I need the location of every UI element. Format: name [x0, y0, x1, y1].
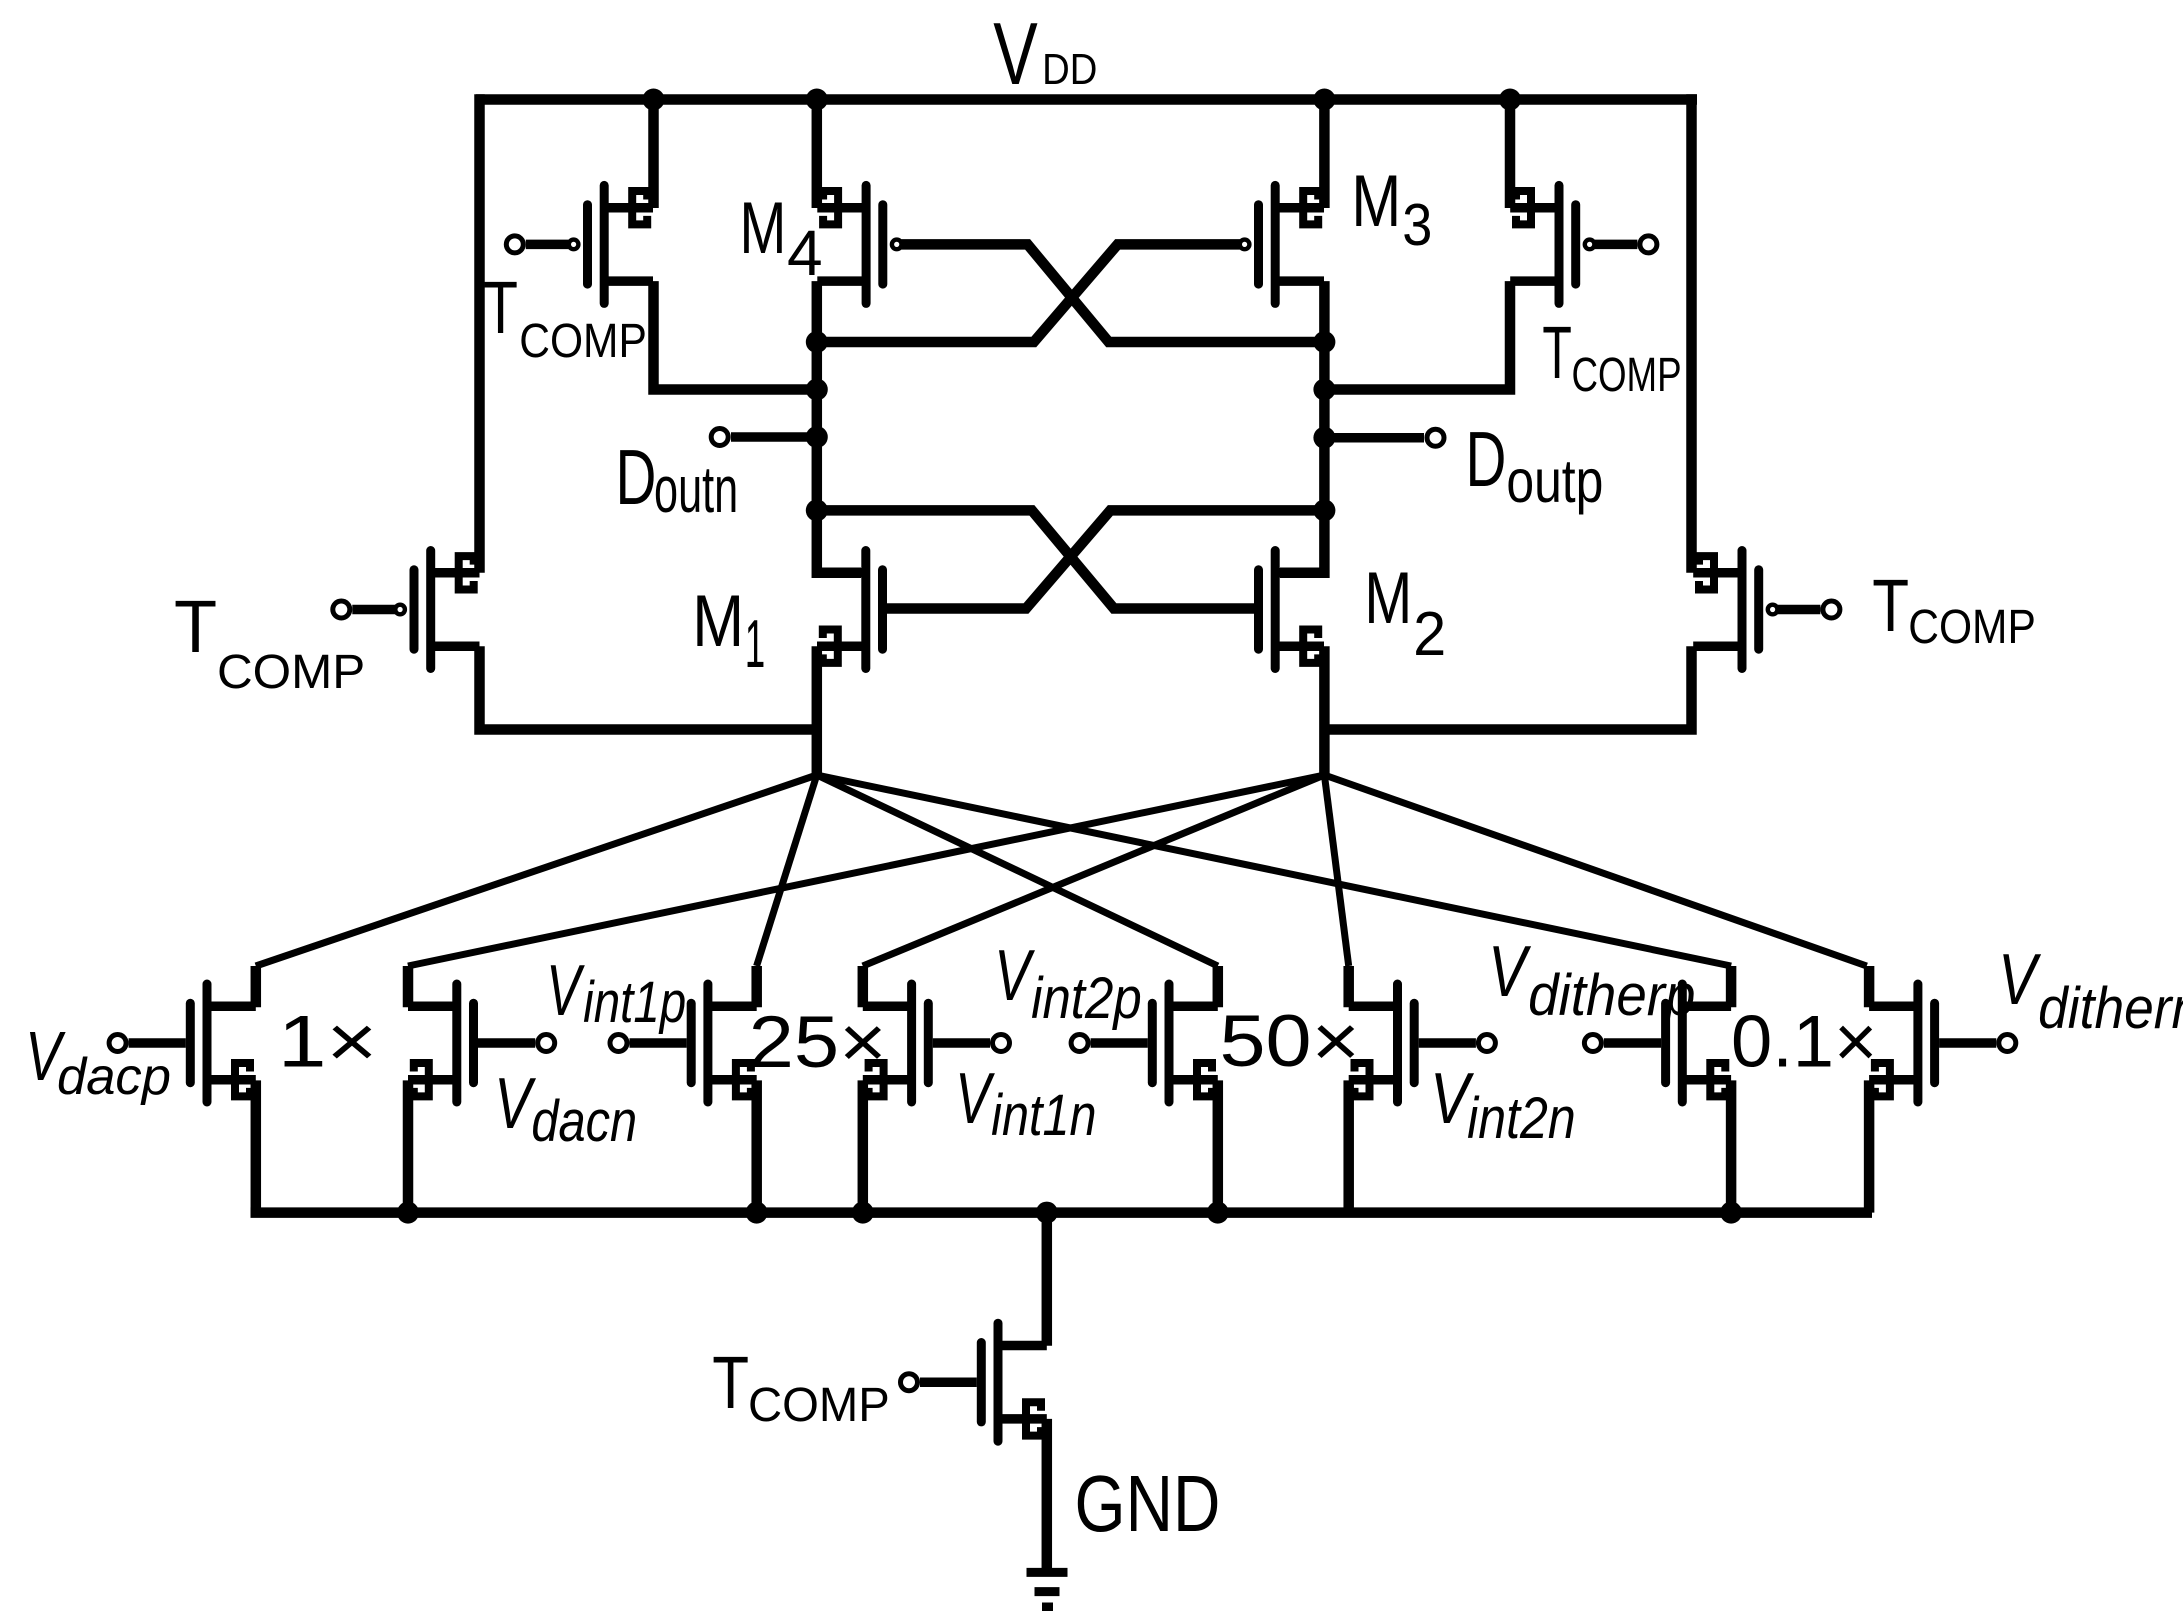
wire source drop for input pair transistor Vdacp (1x left): [251, 1080, 262, 1212]
wire Doutn to M2 gate (lower cross A): [817, 510, 1254, 608]
svg-text:25×: 25×: [749, 1002, 887, 1083]
node Vint1n label: [955, 1059, 1096, 1148]
svg-text:V: V: [994, 935, 1035, 1016]
transistor input pair transistor Vdacp (1x left): [109, 984, 256, 1102]
node Vdithern label: [1998, 939, 2183, 1041]
wire drain riser for input pair transistor Vdithern (0.1x right): [1864, 966, 1875, 1007]
wire source drop for input pair transistor Vint1n (25x right): [858, 1080, 869, 1212]
wire drain riser for input pair transistor Vint1n (25x right): [858, 966, 869, 1007]
transistor input pair transistor Vint2n (50x right): [1349, 984, 1496, 1102]
transistor T2 reset PMOS (mid-left, TCOMP): [333, 551, 480, 669]
svg-text:ditherp: ditherp: [1528, 963, 1695, 1028]
svg-text:COMP: COMP: [1908, 600, 2036, 654]
transistor T3 reset PMOS (mid-right, TCOMP): [1693, 551, 1840, 669]
node Doutp terminal: [1324, 429, 1444, 446]
svg-text:int2n: int2n: [1467, 1087, 1576, 1151]
wire T1 drain down to node Doutn: [654, 281, 817, 389]
transistor input pair transistor Vdithern (0.1x right): [1869, 984, 2016, 1102]
label TCOMP (top-right): [1542, 312, 1681, 403]
wire drain riser for input pair transistor Vint1p (25x left): [751, 966, 762, 1007]
wire M4 gate to M3 drain (upper cross A): [901, 244, 1324, 342]
junction dot bus/Vdacn source: [397, 1202, 419, 1224]
ground symbol: [1027, 1572, 1068, 1607]
transistor T4 reset PMOS (top-right, TCOMP): [1510, 185, 1657, 303]
junction dot T4 drain / Doutp: [1313, 379, 1335, 401]
node Vdacn label: [494, 1063, 637, 1154]
transistor T1 reset PMOS (top-left, TCOMP): [506, 185, 653, 303]
node Vditherp label: [1488, 931, 1695, 1027]
svg-text:3: 3: [1402, 192, 1432, 258]
transistor input pair transistor Vint1n (25x right): [863, 984, 1010, 1102]
label M3: [1351, 161, 1432, 257]
svg-text:0.1×: 0.1×: [1731, 1000, 1877, 1082]
svg-text:COMP: COMP: [1571, 348, 1681, 402]
svg-text:M: M: [1351, 161, 1401, 242]
transistor input pair transistor Vditherp (0.1x left): [1584, 984, 1731, 1102]
svg-text:T: T: [483, 266, 518, 349]
wire source drop for input pair transistor Vditherp (0.1x left): [1726, 1080, 1737, 1212]
junction dot rail/M4 source: [806, 89, 828, 111]
svg-text:M: M: [1364, 557, 1412, 638]
wire T2 source to tail node: [480, 646, 817, 729]
svg-text:outn: outn: [654, 453, 738, 526]
svg-text:M: M: [692, 581, 744, 662]
svg-text:GND: GND: [1075, 1459, 1221, 1549]
svg-text:V: V: [955, 1059, 995, 1139]
label TCOMP (mid-left): [174, 586, 365, 698]
svg-text:T: T: [712, 1342, 749, 1424]
junction dot bus/Vint1n source: [852, 1202, 874, 1224]
node Doutn terminal: [711, 429, 817, 446]
wire drain riser for input pair transistor Vint2p (50x left): [1213, 966, 1224, 1007]
transistor input pair transistor Vint2p (50x left): [1071, 984, 1218, 1102]
junction dot T1 drain / Doutn: [806, 379, 828, 401]
svg-text:COMP: COMP: [217, 646, 365, 699]
label 0.1x ratio: [1731, 1000, 1877, 1082]
junction dot bus/Vint1p source: [746, 1202, 768, 1224]
svg-text:M: M: [739, 187, 786, 269]
svg-text:outp: outp: [1506, 447, 1603, 515]
junction dot bus/Vditherp source: [1720, 1202, 1742, 1224]
node Vint1p label: [546, 951, 686, 1035]
node Vint2p label: [994, 935, 1141, 1031]
wire Doutp to M1 gate (lower cross B): [886, 510, 1324, 608]
label 25x ratio: [749, 1002, 887, 1083]
transistor M2 latch NMOS: [1259, 551, 1325, 669]
label TCOMP (tail): [712, 1342, 890, 1432]
label M2: [1364, 557, 1446, 668]
junction dot bus/tail drain: [1036, 1202, 1058, 1224]
wire T4 drain down to node Doutp: [1324, 281, 1510, 389]
label 1x ratio: [278, 1001, 378, 1083]
svg-text:T: T: [174, 586, 217, 668]
svg-text:dacp: dacp: [57, 1048, 171, 1106]
svg-text:dacn: dacn: [531, 1089, 637, 1154]
wire tail drain riser: [1042, 1213, 1053, 1346]
label GND: [1075, 1459, 1221, 1549]
svg-text:int1n: int1n: [991, 1084, 1096, 1148]
label M1: [692, 581, 765, 681]
wire M1 source down to tail node: [812, 646, 823, 775]
junction dot bus/Vint2p source: [1207, 1202, 1229, 1224]
wire drain riser for input pair transistor Vditherp (0.1x left): [1726, 966, 1737, 1007]
svg-text:1×: 1×: [278, 1001, 378, 1083]
wire node Doutn vertical (M4 drain to M1 drain): [817, 281, 861, 573]
junction dot Doutp/cross: [1313, 499, 1335, 521]
junction dot rail/T1 source: [643, 89, 665, 111]
junction dot M3 drain/cross: [1313, 331, 1335, 353]
transistor M1 latch NMOS: [817, 551, 883, 669]
wire right border (rail to T3 drain): [1686, 94, 1697, 573]
junction dot Doutn terminal: [806, 426, 828, 448]
junction dot rail/T4 source: [1499, 89, 1521, 111]
transistor tail current source NMOS (TCOMP): [901, 1323, 1047, 1441]
node Vdacp label: [25, 1017, 171, 1106]
svg-text:int2p: int2p: [1031, 966, 1142, 1031]
wire source drop for input pair transistor Vint2p (50x left): [1213, 1080, 1224, 1212]
svg-text:COMP: COMP: [519, 314, 647, 368]
label TCOMP (mid-right): [1872, 565, 2036, 653]
transistor M3 latch PMOS: [1240, 185, 1324, 303]
svg-text:4: 4: [787, 217, 823, 289]
wire source drop for input pair transistor Vint1p (25x left): [751, 1080, 762, 1212]
wire M3 source to rail: [1319, 100, 1330, 209]
node VDD label: [993, 4, 1097, 103]
transistor input pair transistor Vdacn (1x right): [408, 984, 555, 1102]
label M4: [739, 187, 822, 289]
svg-text:T: T: [1542, 312, 1571, 395]
wire tail fan from M2 source: [408, 775, 1867, 966]
wire common source bus: [251, 1207, 1873, 1218]
wire left border (rail to T2 drain): [474, 94, 485, 573]
svg-text:int1p: int1p: [583, 971, 686, 1036]
junction dot M4 drain/cross: [806, 331, 828, 353]
svg-text:2: 2: [1413, 599, 1446, 668]
wire drain riser for input pair transistor Vint2n (50x right): [1343, 966, 1354, 1007]
wire M2 source down to tail node: [1319, 646, 1330, 775]
label 50x ratio: [1219, 1000, 1359, 1082]
junction dot Doutn/cross: [806, 499, 828, 521]
transistor M4 latch PMOS: [817, 185, 901, 303]
svg-text:T: T: [1872, 565, 1909, 647]
svg-text:V: V: [1488, 931, 1531, 1012]
wire source drop for input pair transistor Vint2n (50x right): [1343, 1080, 1354, 1212]
wire T1 source to rail: [648, 100, 659, 209]
node Vint2n label: [1430, 1057, 1575, 1150]
svg-text:D: D: [616, 434, 657, 521]
transistor input pair transistor Vint1p (25x left): [610, 984, 757, 1102]
svg-text:V: V: [993, 4, 1037, 103]
wire node Doutp vertical (M3 drain to M2 drain): [1280, 281, 1324, 573]
svg-text:D: D: [1466, 416, 1507, 503]
node Doutn label: [616, 434, 739, 526]
svg-text:1: 1: [745, 605, 765, 682]
svg-text:dithern: dithern: [2038, 976, 2183, 1041]
wire tail source to ground: [1042, 1419, 1053, 1572]
wire drain riser for input pair transistor Vdacn (1x right): [403, 966, 414, 1007]
wire M4 source to rail: [812, 100, 823, 209]
svg-text:COMP: COMP: [748, 1379, 890, 1432]
wire drain riser for input pair transistor Vdacp (1x left): [251, 966, 262, 1007]
svg-text:V: V: [494, 1063, 537, 1143]
wire source drop for input pair transistor Vdacn (1x right): [403, 1080, 414, 1212]
wire T3 source to tail node: [1324, 646, 1691, 729]
wire M4 drain to M3 gate (upper cross B): [817, 244, 1240, 342]
label TCOMP (top-left): [483, 266, 647, 368]
junction dot rail/M3 source: [1313, 89, 1335, 111]
svg-text:50×: 50×: [1219, 1000, 1359, 1082]
VDD rail wire: [476, 94, 1697, 105]
svg-text:V: V: [1998, 939, 2041, 1020]
node Doutp label: [1466, 416, 1604, 515]
junction dot Doutp terminal: [1313, 427, 1335, 449]
svg-text:DD: DD: [1042, 45, 1097, 94]
svg-text:V: V: [546, 951, 585, 1031]
wire T4 source to rail: [1505, 100, 1516, 209]
wire tail fan from M1 source: [256, 775, 1731, 966]
wire source drop for input pair transistor Vdithern (0.1x right): [1864, 1080, 1875, 1212]
